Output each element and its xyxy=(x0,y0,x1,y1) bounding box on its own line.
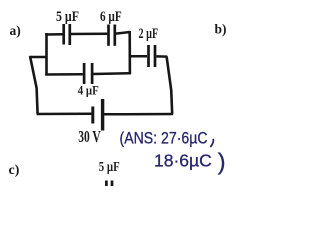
label a) xyxy=(10,23,21,38)
wire C3 to right outer vertical xyxy=(156,55,167,58)
wire left tap (node A to outer loop) xyxy=(30,56,48,59)
svg-text:4 µF: 4 µF xyxy=(78,83,99,98)
wire left outer vertical xyxy=(30,56,38,114)
svg-text:a): a) xyxy=(10,23,21,38)
svg-text:(ANS: 27·6µC: (ANS: 27·6µC xyxy=(120,129,208,147)
wire bottom-right (battery to right outer corner) xyxy=(104,113,173,116)
wire bottom-left (to battery) xyxy=(37,113,92,116)
capacitor C5 (part c, cut off at bottom) plates xyxy=(106,181,112,187)
handwritten answer note line 1: (ANS: 27.6µC, xyxy=(120,129,214,147)
value label 30 V (battery) xyxy=(78,128,101,147)
label c) xyxy=(9,163,20,178)
wire middle branch left (node A to C4) xyxy=(45,73,83,76)
capacitor C2 6µF plates xyxy=(109,25,115,46)
value label 4 µF (C4) xyxy=(78,83,99,98)
label b) xyxy=(215,22,227,37)
capacitor C3 2µF plates xyxy=(149,45,156,67)
svg-text:6 µF: 6 µF xyxy=(100,7,122,24)
svg-text:b): b) xyxy=(215,22,227,37)
svg-text:5 µF: 5 µF xyxy=(56,8,79,25)
wire right inner vertical (top-right corner to node B) xyxy=(128,31,131,74)
handwritten answer note line 2: 18.6µC ) xyxy=(154,149,226,175)
wire top-left segment (node A to C1) xyxy=(47,34,63,35)
svg-text:2 µF: 2 µF xyxy=(139,25,159,41)
wire left inner vertical (node A side) xyxy=(45,33,48,76)
svg-text:): ) xyxy=(218,149,226,175)
wire C1 to C2 xyxy=(71,33,107,36)
value label 2 µF (C3) xyxy=(139,25,159,41)
svg-text:5 µF: 5 µF xyxy=(99,159,120,174)
wire node B to C3 xyxy=(131,55,148,58)
value label 6 µF (C2) xyxy=(100,7,122,24)
wire C2 to top-right corner xyxy=(116,32,130,34)
wire middle branch right (C4 to node B) xyxy=(93,72,131,75)
capacitor C1 5µF plates xyxy=(64,24,70,45)
wire right outer vertical xyxy=(167,57,173,115)
value label 5 µF (part c capacitor) xyxy=(99,159,120,174)
svg-text:18·6µC: 18·6µC xyxy=(154,151,212,171)
value label 5 µF (C1) xyxy=(56,8,79,25)
battery 30V negative plate (short) xyxy=(91,107,94,124)
battery 30V positive plate (tall) xyxy=(101,99,104,131)
svg-text:30 V: 30 V xyxy=(78,128,101,147)
svg-text:c): c) xyxy=(9,163,20,178)
capacitor C4 4µF plates xyxy=(84,63,92,84)
